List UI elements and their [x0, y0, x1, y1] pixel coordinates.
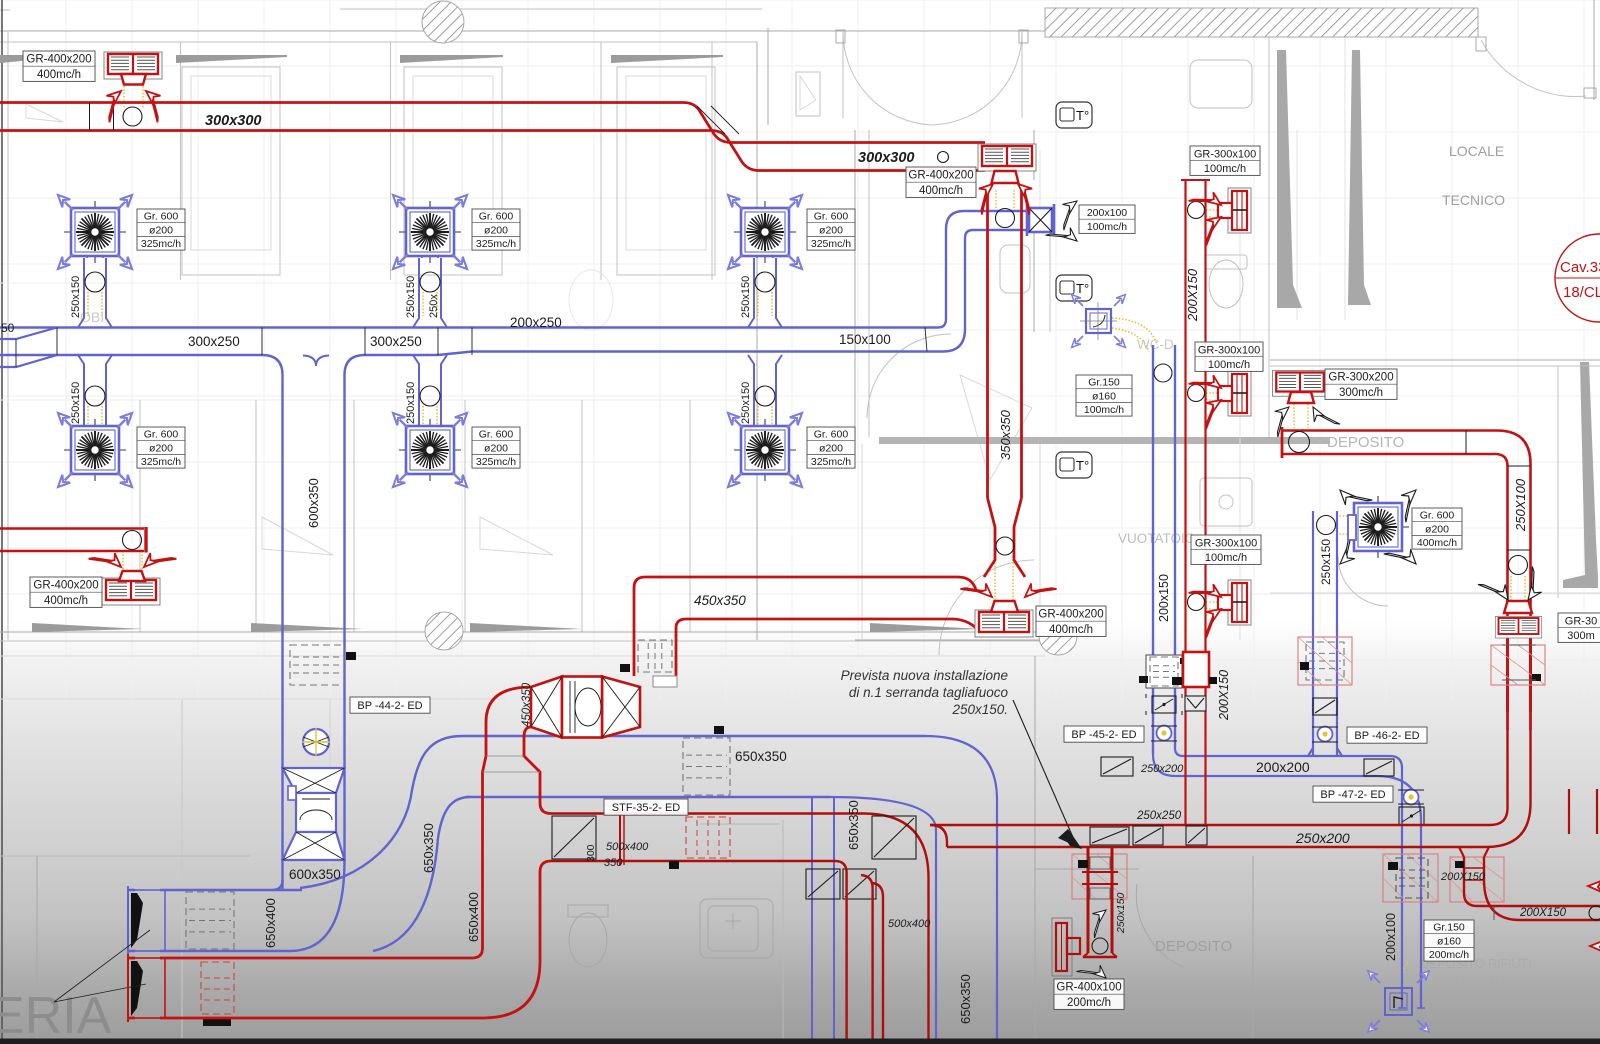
svg-text:300x250: 300x250 [188, 334, 240, 349]
svg-text:ø200: ø200 [484, 442, 508, 454]
svg-text:ø160: ø160 [1092, 390, 1116, 402]
red grilles, arrows, dampers, fire dampers [104, 52, 162, 79]
svg-text:250x: 250x [428, 294, 440, 318]
svg-text:GR-400x100: GR-400x100 [1056, 982, 1121, 994]
svg-text:STF-35-2- ED: STF-35-2- ED [612, 802, 681, 814]
svg-text:325mc/h: 325mc/h [476, 238, 516, 250]
svg-text:600x350: 600x350 [306, 478, 321, 528]
svg-text:350x350: 350x350 [998, 409, 1013, 460]
svg-text:200X150: 200X150 [1519, 907, 1567, 919]
svg-text:300x300: 300x300 [858, 150, 914, 166]
svg-text:200x250: 200x250 [510, 315, 562, 330]
svg-text:GR-400x200: GR-400x200 [33, 580, 98, 592]
svg-text:Gr. 600: Gr. 600 [814, 211, 849, 223]
svg-text:GR-30: GR-30 [1565, 615, 1597, 627]
svg-text:650x350: 650x350 [846, 800, 861, 850]
svg-text:Gr. 600: Gr. 600 [479, 429, 514, 441]
svg-text:Gr. 600: Gr. 600 [814, 429, 849, 441]
svg-text:500x400: 500x400 [888, 918, 931, 930]
svg-text:200x200: 200x200 [1256, 759, 1310, 775]
svg-text:250x150: 250x150 [1319, 539, 1333, 585]
svg-text:300: 300 [585, 844, 597, 862]
svg-text:300mc/h: 300mc/h [1339, 387, 1383, 399]
svg-text:250x150: 250x150 [70, 276, 82, 318]
svg-text:ERIA: ERIA [0, 987, 112, 1044]
svg-text:DEPOSITO: DEPOSITO [1327, 434, 1404, 451]
svg-text:250x150: 250x150 [1115, 893, 1127, 934]
svg-text:300m: 300m [1567, 630, 1595, 642]
svg-text:350: 350 [604, 857, 623, 869]
svg-text:250x150: 250x150 [740, 276, 752, 318]
svg-text:GR-400x200: GR-400x200 [908, 170, 973, 182]
svg-text:100mc/h: 100mc/h [1208, 359, 1250, 371]
svg-text:250x200: 250x200 [1140, 763, 1184, 775]
svg-text:250x200: 250x200 [1295, 830, 1350, 846]
svg-text:200x150: 200x150 [1157, 574, 1171, 622]
svg-text:TECNICO: TECNICO [1442, 192, 1505, 208]
red DEPOSITO loop + right column [1181, 180, 1531, 824]
svg-text:GR-300x200: GR-300x200 [1328, 372, 1393, 384]
svg-text:DEPOSITO: DEPOSITO [1155, 938, 1232, 955]
svg-text:200X150: 200X150 [1440, 871, 1486, 883]
svg-text:T°: T° [1076, 108, 1089, 123]
svg-text:ø200: ø200 [149, 224, 173, 236]
svg-text:300x300: 300x300 [205, 113, 261, 129]
svg-text:250X100: 250X100 [1513, 478, 1528, 532]
blue 200x200 run + BP columns [1153, 511, 1425, 1008]
svg-text:ø200: ø200 [819, 442, 843, 454]
svg-text:325mc/h: 325mc/h [811, 238, 851, 250]
svg-text:BP -45-2- ED: BP -45-2- ED [1071, 729, 1136, 741]
svg-text:di n.1 serranda tagliafuoco: di n.1 serranda tagliafuoco [849, 685, 1009, 700]
svg-text:T°: T° [1076, 458, 1089, 473]
svg-text:T°: T° [1076, 281, 1089, 296]
svg-text:150x100: 150x100 [839, 332, 891, 347]
svg-text:GR-300x100: GR-300x100 [1195, 537, 1257, 549]
svg-text:200X150: 200X150 [1185, 268, 1200, 322]
svg-text:Gr.150: Gr.150 [1433, 922, 1465, 934]
svg-text:100mc/h: 100mc/h [1087, 221, 1127, 233]
svg-text:OBI e PEMAF: OBI e PEMAF [1437, 975, 1516, 989]
svg-text:300x250: 300x250 [370, 334, 422, 349]
svg-text:400mc/h: 400mc/h [37, 69, 81, 81]
svg-text:450x350: 450x350 [694, 593, 746, 608]
blue duct components (silencers, dampers, fans) [186, 892, 234, 949]
svg-text:ø200: ø200 [1425, 523, 1449, 535]
svg-text:BP -47-2- ED: BP -47-2- ED [1320, 789, 1385, 801]
svg-text:250x150.: 250x150. [951, 702, 1008, 717]
svg-text:325mc/h: 325mc/h [141, 456, 181, 468]
svg-text:BP -46-2- ED: BP -46-2- ED [1354, 730, 1419, 742]
svg-text:600x350: 600x350 [289, 867, 341, 882]
svg-text:400mc/h: 400mc/h [1049, 624, 1093, 636]
svg-text:GR-300x100: GR-300x100 [1198, 344, 1260, 356]
svg-text:250x150: 250x150 [405, 382, 417, 424]
svg-text:Gr. 600: Gr. 600 [144, 429, 179, 441]
svg-text:400mc/h: 400mc/h [1417, 537, 1457, 549]
svg-text:400mc/h: 400mc/h [919, 185, 963, 197]
svg-text:GR-400x200: GR-400x200 [1038, 609, 1103, 621]
svg-text:450x350: 450x350 [521, 682, 533, 727]
svg-text:250x150: 250x150 [405, 276, 417, 318]
svg-text:325mc/h: 325mc/h [141, 238, 181, 250]
svg-text:50: 50 [1, 321, 15, 335]
svg-text:100mc/h: 100mc/h [1204, 163, 1246, 175]
svg-text:325mc/h: 325mc/h [476, 456, 516, 468]
svg-text:250x250: 250x250 [1136, 810, 1182, 822]
svg-text:200x100: 200x100 [1384, 913, 1398, 961]
svg-text:GR-400x200: GR-400x200 [26, 54, 91, 66]
svg-text:Gr. 600: Gr. 600 [479, 211, 514, 223]
svg-text:650x350: 650x350 [421, 823, 436, 873]
svg-text:ø200: ø200 [149, 442, 173, 454]
svg-text:100mc/h: 100mc/h [1205, 552, 1247, 564]
red extract ducts (lower zone) [551, 712, 1531, 1044]
red extract duct network (top runs) [0, 103, 1025, 1023]
svg-text:LOCALE: LOCALE [1449, 143, 1504, 159]
svg-text:250x150: 250x150 [740, 382, 752, 424]
svg-text:200mc/h: 200mc/h [1067, 997, 1111, 1009]
svg-text:650x350: 650x350 [735, 749, 787, 764]
svg-text:650x400: 650x400 [466, 892, 481, 942]
yellow flexible-duct connectors [123, 86, 125, 108]
svg-text:ø160: ø160 [1437, 935, 1461, 947]
svg-text:Prevista nuova installazione: Prevista nuova installazione [841, 668, 1008, 683]
svg-text:Gr.150: Gr.150 [1088, 377, 1120, 389]
svg-text:ø200: ø200 [484, 224, 508, 236]
text labels and dimension annotations [23, 51, 95, 81]
svg-text:200mc/h: 200mc/h [1429, 949, 1469, 961]
svg-text:18/CL: 18/CL [1563, 284, 1600, 301]
svg-text:Gr. 600: Gr. 600 [1420, 510, 1455, 522]
svg-text:100mc/h: 100mc/h [1084, 404, 1124, 416]
svg-text:650x400: 650x400 [263, 898, 278, 948]
svg-text:400mc/h: 400mc/h [44, 595, 88, 607]
svg-text:250x150: 250x150 [70, 382, 82, 424]
svg-text:GR-300x100: GR-300x100 [1194, 148, 1256, 160]
svg-text:325mc/h: 325mc/h [811, 456, 851, 468]
blue supply duct network [0, 204, 1175, 1044]
svg-text:ø200: ø200 [819, 224, 843, 236]
ceiling diffusers Gr.600 [64, 201, 126, 263]
svg-text:500x400: 500x400 [606, 841, 649, 853]
svg-text:200X150: 200X150 [1217, 670, 1231, 721]
svg-text:Gr. 600: Gr. 600 [144, 211, 179, 223]
svg-text:VUOTATOIO: VUOTATOIO [1118, 531, 1195, 546]
svg-text:BP -44-2- ED: BP -44-2- ED [357, 700, 422, 712]
svg-text:Cav.33: Cav.33 [1560, 259, 1600, 276]
svg-text:650x350: 650x350 [958, 974, 973, 1024]
svg-text:200x100: 200x100 [1087, 207, 1127, 219]
